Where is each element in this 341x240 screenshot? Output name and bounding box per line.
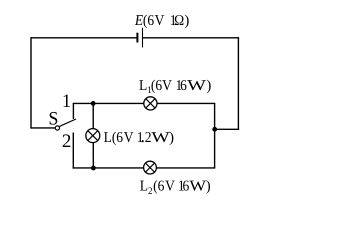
wire: top rail right segment (from battery) [143,37,240,39]
switch S pivot circle [55,126,59,130]
wire: top branch horizontal [73,102,216,104]
wire: right jog to junction [214,128,239,130]
svg-text:1: 1 [62,91,71,112]
wire: bottom rail [73,167,216,169]
lamp L2 [144,161,157,174]
svg-text:E(6V1Ω): E(6V1Ω) [134,13,189,29]
battery E: tall thin plate [142,28,144,48]
wire: right rail [237,37,239,130]
wire: switch feed [31,127,55,129]
wire: middle branch vertical [92,103,94,168]
label L1(6V 16W) [139,78,211,96]
label L(6V 1.2W) [104,126,174,147]
svg-text:2: 2 [62,131,72,152]
node: junction dot top [91,101,96,106]
svg-text:S: S [49,109,59,130]
label S [49,109,59,130]
node: junction dot bottom [91,166,96,171]
wire: left rail [30,37,32,129]
switch contact 2 wire down to bottom rail [72,133,74,169]
wire: right mid vertical (L1/L2 common) [214,103,216,167]
svg-text:L2(6V16W): L2(6V16W) [140,179,211,196]
label 1 [62,91,71,112]
label E(6V 1Ω) [134,13,189,29]
lamp L [86,129,100,143]
svg-text:L(6V1.2W): L(6V1.2W) [104,126,174,147]
label L2(6V 16W) [140,179,211,198]
svg-text:L1(6V16W): L1(6V16W) [139,78,211,96]
switch S blade [59,119,76,126]
lamp L1 [144,97,157,110]
label 2 [62,131,72,152]
wire: top rail left segment (to battery) [31,37,137,39]
battery E: short thick plate [136,33,138,43]
node: junction dot right [212,127,217,132]
switch contact 1 stub [72,103,74,119]
